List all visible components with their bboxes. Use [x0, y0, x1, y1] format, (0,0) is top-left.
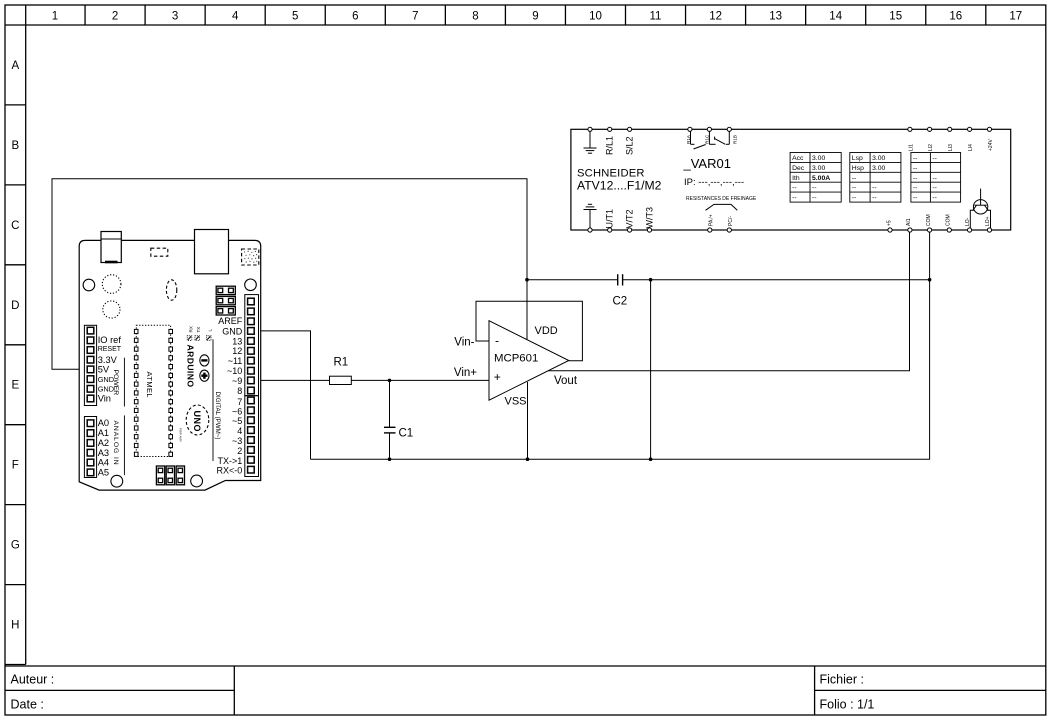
svg-text:G: G	[11, 540, 20, 552]
svg-text:MCP601: MCP601	[494, 353, 538, 365]
svg-text:D: D	[11, 300, 19, 312]
svg-text:15: 15	[889, 11, 902, 23]
svg-text:17: 17	[1009, 11, 1022, 23]
svg-text:12: 12	[232, 346, 242, 356]
svg-text:7: 7	[237, 397, 242, 407]
svg-text:5.00A: 5.00A	[812, 175, 830, 182]
svg-text:IO ref: IO ref	[98, 335, 122, 345]
svg-text:2: 2	[237, 446, 242, 456]
svg-text:PDIP AVR: PDIP AVR	[179, 428, 183, 442]
svg-text:W/T3: W/T3	[645, 207, 655, 229]
ICSP header 2x3	[216, 286, 235, 315]
svg-text:GND: GND	[222, 326, 243, 336]
svg-text:3.00: 3.00	[872, 165, 885, 172]
svg-text:A3: A3	[98, 448, 109, 458]
column tick lines	[85, 5, 986, 25]
svg-text:_VAR01: _VAR01	[683, 156, 731, 171]
row letters	[11, 60, 20, 632]
ground (bottom-left earth symbol)	[584, 204, 597, 228]
brace over PA/PC	[706, 204, 738, 210]
svg-text:-: -	[495, 333, 499, 347]
ATMEL IC U3	[136, 325, 170, 456]
svg-text:A4: A4	[98, 458, 109, 468]
wire mid riser C2 line to bottom rail	[650, 280, 652, 460]
svg-text:--: --	[872, 185, 877, 192]
svg-text:11: 11	[650, 11, 662, 23]
ground (top-left earth symbol)	[584, 131, 597, 153]
power jack J1	[101, 232, 121, 263]
relay contact R1A/R1C/R1B	[691, 131, 730, 149]
junction node at R1/C1/op-amp	[388, 379, 392, 383]
svg-text:--: --	[932, 175, 937, 182]
svg-text:1: 1	[52, 11, 58, 23]
frame column header line	[5, 24, 1046, 26]
mounting hole bottom-left	[111, 475, 123, 487]
svg-text:+: +	[494, 370, 501, 384]
svg-text:8: 8	[237, 386, 242, 396]
drive body	[571, 129, 1011, 230]
column numbers	[52, 11, 1022, 23]
svg-text:Fichier :: Fichier :	[820, 672, 864, 686]
ICSP header 3x2 bottom	[156, 466, 184, 485]
svg-text:VSS: VSS	[505, 396, 527, 408]
svg-text:A1: A1	[98, 428, 109, 438]
svg-text:3.00: 3.00	[872, 155, 885, 162]
svg-text:~6: ~6	[232, 406, 242, 416]
svg-text:C: C	[11, 220, 19, 232]
svg-text:GND: GND	[98, 384, 114, 393]
svg-text:L: L	[208, 329, 213, 332]
svg-text:LI4: LI4	[968, 144, 974, 151]
svg-text:R1B: R1B	[733, 135, 738, 144]
svg-text:B: B	[11, 140, 19, 152]
svg-text:AREF: AREF	[218, 316, 243, 326]
left pin header ANALOG IN	[84, 417, 96, 478]
wire C2 right plate to COM riser	[623, 279, 930, 281]
svg-text:GND: GND	[98, 375, 114, 384]
svg-text:14: 14	[829, 11, 842, 23]
svg-text:--: --	[913, 195, 918, 202]
USB connector J2	[195, 230, 229, 274]
svg-text:R1A: R1A	[686, 134, 691, 144]
svg-text:6: 6	[352, 11, 358, 23]
svg-text:RESET: RESET	[98, 346, 122, 353]
svg-text:RX: RX	[189, 326, 194, 332]
svg-text:H: H	[11, 620, 19, 632]
svg-text:PA /+: PA /+	[708, 214, 714, 226]
junction node VSS rail	[526, 457, 530, 461]
svg-text:ANALOG IN: ANALOG IN	[112, 421, 119, 466]
svg-text:13: 13	[769, 11, 782, 23]
svg-text:~10: ~10	[227, 366, 242, 376]
svg-text:--: --	[872, 195, 877, 202]
svg-text:Lsp: Lsp	[852, 155, 863, 162]
svg-text:TX: TX	[196, 327, 201, 333]
dotted capacitor circle 2	[103, 301, 120, 318]
junction node C1 bottom rail	[388, 457, 392, 461]
svg-text:--: --	[792, 195, 797, 202]
svg-text:13: 13	[232, 336, 242, 346]
transistor logic output symbol Q1	[970, 189, 990, 230]
svg-text:R1: R1	[334, 357, 349, 369]
capacitor C1	[384, 427, 396, 433]
wire VDD rail to C2 left plate	[527, 279, 618, 281]
svg-text:Vin-: Vin-	[454, 336, 474, 348]
op-amp U1 MCP601	[454, 321, 578, 408]
LED markers	[187, 336, 211, 341]
resistor R1	[330, 376, 352, 384]
svg-text:ARDUINO: ARDUINO	[185, 345, 195, 388]
svg-text:ATMEL: ATMEL	[145, 372, 154, 398]
wire GND net: Arduino GND pin right, down to bottom rail	[251, 331, 311, 459]
svg-text:--: --	[792, 185, 797, 192]
dotted capacitor circle 1	[102, 275, 121, 294]
dashed component outline	[151, 248, 168, 256]
left pin header POWER	[84, 325, 96, 405]
svg-text:TX->1: TX->1	[218, 456, 243, 466]
svg-text:~11: ~11	[228, 356, 243, 366]
svg-text:COM: COM	[946, 214, 952, 226]
variable speed drive _VAR01 SCHNEIDER ATV12	[571, 127, 1011, 232]
junction node COM riser / C2 wire	[928, 278, 932, 282]
svg-text:--: --	[932, 155, 937, 162]
svg-text:8: 8	[472, 11, 478, 23]
svg-text:A0: A0	[98, 418, 109, 428]
svg-text:Acc: Acc	[792, 155, 804, 162]
svg-text:--: --	[913, 155, 918, 162]
ANALOG IN silk line + label	[123, 415, 125, 475]
svg-text:R/L1: R/L1	[605, 136, 615, 155]
svg-text:UNO: UNO	[192, 411, 202, 433]
svg-text:3.00: 3.00	[812, 165, 825, 172]
svg-text:RESISTANCES DE FREINAGE: RESISTANCES DE FREINAGE	[686, 196, 757, 202]
right pin header digital 1	[245, 295, 259, 396]
svg-text:12: 12	[709, 11, 722, 23]
svg-text:16: 16	[949, 11, 962, 23]
svg-text:PC/-: PC/-	[728, 216, 734, 226]
drive top terminals	[588, 127, 992, 131]
mounting hole top-right	[245, 279, 257, 291]
svg-text:Date :: Date :	[11, 697, 44, 711]
junction node mid riser top	[649, 278, 653, 282]
title block	[5, 665, 1046, 667]
svg-text:A2: A2	[98, 438, 109, 448]
svg-text:--: --	[852, 175, 857, 182]
svg-text:Hsp: Hsp	[852, 165, 864, 172]
svg-text:+24V: +24V	[988, 139, 994, 151]
svg-text:V/T2: V/T2	[625, 209, 635, 228]
svg-text:Vin+: Vin+	[454, 367, 477, 379]
svg-text:VDD: VDD	[535, 325, 558, 337]
wire ~9 pin to R1	[251, 379, 330, 381]
capacitor C2	[618, 274, 623, 285]
svg-text:DIGITAL (PWM~): DIGITAL (PWM~)	[214, 392, 221, 440]
svg-text:R1C: R1C	[704, 134, 709, 144]
parameter table 1 (Acc/Dec/Ith)	[790, 153, 841, 203]
wire C1 bottom to rail	[389, 433, 391, 459]
svg-text:3.00: 3.00	[812, 155, 825, 162]
svg-text:ATV12....F1/M2: ATV12....F1/M2	[577, 179, 662, 193]
svg-text:C1: C1	[399, 428, 414, 440]
svg-text:E: E	[11, 380, 19, 392]
drive bottom terminals	[588, 228, 992, 232]
svg-text:U/T1: U/T1	[605, 209, 615, 229]
wire bottom GND rail	[311, 231, 930, 459]
svg-text:Dec: Dec	[792, 165, 805, 172]
board outline	[79, 240, 261, 490]
plus power indicator	[200, 370, 209, 381]
svg-text:--: --	[812, 185, 817, 192]
svg-text:LO+: LO+	[985, 216, 991, 226]
DIGITAL (PWM~) silk line + label	[212, 339, 214, 461]
svg-text:--: --	[852, 185, 857, 192]
svg-text:~3: ~3	[232, 436, 242, 446]
svg-text:--: --	[932, 185, 937, 192]
svg-text:Folio : 1/1: Folio : 1/1	[820, 697, 875, 711]
svg-text:A5: A5	[98, 467, 109, 477]
svg-text:Vin: Vin	[98, 393, 111, 403]
wire feedback loop inverting input	[476, 301, 582, 360]
minus power indicator	[200, 355, 209, 366]
row tick lines	[5, 105, 26, 585]
svg-text:~5: ~5	[232, 416, 242, 426]
svg-text:SCHNEIDER: SCHNEIDER	[577, 167, 645, 179]
svg-text:LI1: LI1	[908, 144, 914, 151]
svg-text:LI3: LI3	[948, 144, 954, 151]
svg-text:Vout: Vout	[554, 375, 578, 387]
junction node VDD / C2 tee	[525, 278, 529, 282]
parameter table 3	[911, 153, 961, 203]
svg-text:9: 9	[532, 11, 538, 23]
UNO dashed ellipse logo	[186, 405, 209, 435]
dashed crystal ellipse	[166, 280, 176, 300]
Arduino UNO board	[79, 230, 261, 491]
svg-text:LI2: LI2	[928, 144, 934, 151]
svg-text:+5: +5	[886, 220, 892, 226]
dashed pad square top-right	[242, 249, 259, 265]
svg-text:COM: COM	[926, 214, 932, 226]
svg-text:F: F	[12, 460, 19, 472]
svg-text:2: 2	[112, 11, 118, 23]
svg-text:AI1: AI1	[906, 218, 912, 226]
svg-text:--: --	[812, 195, 817, 202]
wire C1 branch down	[389, 380, 391, 427]
svg-text:--: --	[913, 165, 918, 172]
svg-text:5V: 5V	[98, 364, 110, 374]
svg-text:C2: C2	[613, 295, 628, 307]
junction node mid riser bottom	[649, 457, 653, 461]
svg-text:4: 4	[232, 11, 239, 23]
parameter table 2 (Lsp/Hsp)	[850, 153, 901, 203]
wire VSS down to bottom rail	[527, 382, 529, 459]
svg-text:3: 3	[172, 11, 178, 23]
wire op-amp output Vout to drive AI1	[530, 231, 910, 371]
title block texts	[11, 672, 875, 711]
svg-text:10: 10	[589, 11, 602, 23]
POWER silk line + label	[123, 358, 125, 407]
svg-text:--: --	[852, 195, 857, 202]
svg-text:--: --	[932, 195, 937, 202]
svg-text:7: 7	[412, 11, 418, 23]
svg-text:5: 5	[292, 11, 298, 23]
svg-text:A: A	[11, 60, 19, 72]
svg-text:RX<-0: RX<-0	[217, 466, 243, 476]
wire 5V net: Arduino 5V pin to left riser	[52, 179, 527, 369]
wire R1 to op-amp non-inverting input	[351, 379, 489, 381]
svg-text:Ith: Ith	[792, 175, 800, 182]
left header labels	[98, 335, 122, 478]
svg-text:--: --	[913, 185, 918, 192]
svg-text:S/L2: S/L2	[625, 136, 635, 155]
right pin header digital 2	[245, 396, 259, 477]
mounting hole bottom-mid	[191, 475, 203, 487]
svg-text:4: 4	[237, 426, 242, 436]
mounting hole top-left	[83, 279, 95, 291]
frame row letter column line	[25, 5, 27, 665]
right header labels	[217, 316, 243, 476]
svg-text:~9: ~9	[232, 376, 242, 386]
svg-text:Auteur :: Auteur :	[11, 672, 55, 686]
svg-text:IP: ---,---,---,---: IP: ---,---,---,---	[684, 177, 744, 188]
svg-text:--: --	[913, 175, 918, 182]
